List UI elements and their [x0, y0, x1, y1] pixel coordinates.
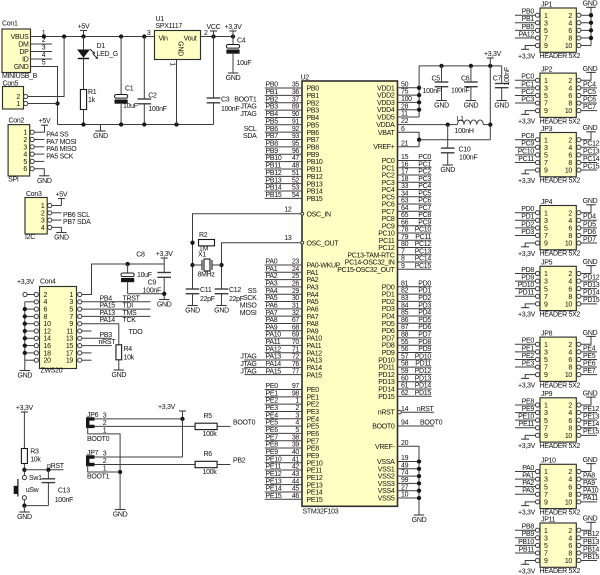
- wire JP10 pin9 to +3.3V: [525, 502, 535, 506]
- wire JP1 pin9 to +3.3V: [525, 46, 535, 50]
- svg-text:PB14: PB14: [266, 185, 282, 192]
- svg-text:TCK: TCK: [123, 317, 137, 324]
- svg-text:PC8: PC8: [382, 216, 395, 223]
- svg-text:BOOT1: BOOT1: [87, 474, 110, 481]
- svg-text:10: 10: [565, 241, 573, 248]
- svg-text:PC4: PC4: [418, 183, 431, 190]
- svg-text:PA11: PA11: [307, 343, 322, 350]
- svg-text:Con2: Con2: [9, 118, 25, 125]
- svg-text:TDO: TDO: [129, 329, 144, 336]
- svg-text:5: 5: [544, 543, 548, 550]
- svg-text:13: 13: [66, 336, 74, 343]
- svg-text:PE6: PE6: [583, 360, 596, 367]
- U2 pin VDD5 (11): [377, 111, 419, 122]
- svg-text:29: 29: [292, 288, 300, 295]
- svg-text:PC14-OSC32_IN: PC14-OSC32_IN: [345, 260, 395, 267]
- svg-text:89: 89: [292, 104, 300, 111]
- header JP8 HEADER 5X2: [535, 331, 581, 390]
- power +3.3V JP9: [518, 439, 536, 450]
- svg-text:HEADER 5X2: HEADER 5X2: [540, 178, 581, 185]
- svg-text:PD6: PD6: [382, 328, 395, 335]
- wire Con2 pin6 to ground: [34, 169, 44, 176]
- wire JP10 pin5 net PA2: [515, 480, 535, 487]
- svg-text:19: 19: [66, 358, 74, 365]
- capacitor C7 100nF: [493, 66, 511, 101]
- svg-text:PD9: PD9: [418, 346, 431, 353]
- svg-text:4: 4: [42, 52, 46, 59]
- svg-text:PB9: PB9: [522, 531, 535, 538]
- svg-text:DM: DM: [18, 41, 29, 48]
- svg-text:PB6 SCL: PB6 SCL: [63, 212, 90, 219]
- svg-text:PC13: PC13: [583, 148, 600, 155]
- svg-text:PC10: PC10: [415, 227, 432, 234]
- wire JP3 pin8 net PC14: [581, 156, 600, 163]
- svg-text:PC5: PC5: [382, 194, 395, 201]
- svg-text:99: 99: [401, 477, 409, 484]
- svg-text:+3,3V: +3,3V: [518, 251, 536, 258]
- svg-text:PE7: PE7: [583, 368, 596, 375]
- U2 pin VBAT (6): [378, 126, 419, 147]
- svg-text:20: 20: [401, 440, 409, 447]
- wire Con3 pin3 / net PB7 SDA: [52, 219, 91, 226]
- svg-text:PC4: PC4: [382, 187, 395, 194]
- svg-text:PC14: PC14: [415, 256, 432, 263]
- svg-text:PE9: PE9: [307, 453, 320, 460]
- wire JP2 pin4 net PC4: [581, 81, 597, 88]
- wire JP11 pin3 net PB9: [515, 531, 535, 538]
- wire JP3 pin7 net PC11: [515, 156, 535, 163]
- svg-text:C1: C1: [125, 86, 134, 93]
- wire +3.3V down to JP7 pin3: [182, 419, 184, 457]
- U2 pin PC9 (66): [382, 219, 432, 230]
- svg-text:6: 6: [568, 152, 572, 159]
- svg-text:nRST: nRST: [99, 339, 117, 346]
- wire R5 to net BOOT0: [217, 419, 256, 426]
- wire JP9 pin10 net PE15: [581, 429, 599, 436]
- svg-text:3: 3: [42, 45, 46, 52]
- svg-text:PC2: PC2: [521, 89, 534, 96]
- wire JP2 pin10 net PC7: [581, 104, 597, 111]
- wire JP4 pin5 net PD2: [515, 221, 535, 228]
- svg-text:3: 3: [544, 349, 548, 356]
- svg-text:PC8: PC8: [418, 212, 431, 219]
- svg-text:TRST: TRST: [123, 295, 141, 302]
- connector Con4 ZWS20 JTAG: [34, 279, 82, 375]
- svg-text:JP2: JP2: [541, 67, 553, 74]
- wire JP4 pin9 to +3.3V: [525, 243, 535, 247]
- capacitor C6 100nF: [451, 66, 478, 101]
- svg-text:R3: R3: [30, 449, 39, 456]
- svg-text:PE12: PE12: [583, 406, 599, 413]
- svg-text:+3,3V: +3,3V: [518, 53, 536, 60]
- U2 pin PE4 (3): [265, 412, 320, 423]
- svg-text:38: 38: [292, 434, 300, 441]
- svg-text:6: 6: [568, 286, 572, 293]
- wire Con2 pin5 stub: [34, 160, 44, 162]
- svg-text:92: 92: [292, 126, 300, 133]
- svg-text:PB6: PB6: [307, 130, 320, 137]
- ground symbol JP2: [583, 66, 598, 73]
- svg-text:87: 87: [401, 324, 409, 331]
- svg-text:PC0: PC0: [418, 154, 431, 161]
- power +5V Con3: [56, 192, 68, 206]
- svg-text:PB10: PB10: [518, 539, 534, 546]
- svg-text:36: 36: [292, 89, 300, 96]
- svg-text:2: 2: [16, 94, 20, 101]
- svg-text:PE3: PE3: [522, 360, 535, 367]
- svg-text:PD10: PD10: [415, 353, 432, 360]
- svg-text:PD0: PD0: [521, 206, 534, 213]
- svg-text:32: 32: [292, 310, 300, 317]
- header JP5 HEADER 5X2: [535, 260, 581, 319]
- svg-text:10: 10: [565, 433, 573, 440]
- svg-text:PB5: PB5: [307, 122, 320, 129]
- svg-text:PA1: PA1: [307, 270, 319, 277]
- U2 pin PD6 (87): [382, 324, 432, 335]
- wire Con2 pin4 / net PA5 SCK: [34, 154, 73, 161]
- U2 pin PE15 (46): [265, 493, 323, 504]
- capacitor C1 10uF: [115, 37, 138, 125]
- svg-text:100nH: 100nH: [455, 128, 474, 135]
- junction Con4 GND bus: [23, 351, 27, 355]
- svg-text:PB12: PB12: [307, 174, 323, 181]
- svg-text:1: 1: [41, 203, 45, 210]
- junction rail/+3.3V feed: [488, 64, 492, 68]
- ground symbol JP1: [583, 1, 598, 8]
- U2 pin VSS1 (49): [378, 462, 419, 473]
- wire JP8 pin5 net PE2: [515, 353, 535, 360]
- wire JP3 pin9 to +3.3V: [525, 170, 535, 174]
- svg-text:3: 3: [544, 145, 548, 152]
- U2 pin PC8 (65): [382, 212, 432, 223]
- svg-text:100nF: 100nF: [459, 155, 477, 162]
- svg-text:10: 10: [565, 301, 573, 308]
- svg-text:15: 15: [401, 154, 409, 161]
- wire JP2 pin8 net PC6: [581, 96, 597, 103]
- svg-text:26: 26: [292, 281, 300, 288]
- svg-text:JTAG: JTAG: [240, 368, 256, 375]
- wire Con4 pin11 stub: [82, 330, 92, 332]
- U2 pin VDD4 (28): [377, 103, 419, 114]
- svg-text:100nF: 100nF: [55, 497, 73, 504]
- wire nRST net label: [24, 463, 64, 470]
- svg-text:58: 58: [401, 361, 409, 368]
- wire JP9 pin3 net PE9: [515, 406, 535, 413]
- wire JP11 pin2 to GND: [581, 522, 591, 530]
- svg-text:PE0: PE0: [307, 387, 320, 394]
- junction rail/U1 GND: [174, 122, 178, 126]
- U2 pin VDD2 (75): [377, 89, 419, 100]
- wire Con4 pin17 stub: [82, 352, 92, 354]
- svg-text:C10: C10: [459, 147, 471, 154]
- svg-text:C6: C6: [461, 76, 470, 83]
- wire JP5 pin4 net PD12: [581, 274, 600, 281]
- svg-text:PA9: PA9: [307, 328, 319, 335]
- svg-text:R6: R6: [204, 451, 213, 458]
- svg-text:2: 2: [568, 528, 572, 535]
- svg-text:8: 8: [568, 365, 572, 372]
- wire JP11 pin6 net PB13: [581, 539, 599, 546]
- junction Con4 GND bus: [23, 322, 27, 326]
- svg-text:GND: GND: [583, 391, 598, 398]
- power +3.3V boot jumpers: [158, 404, 186, 419]
- svg-text:41: 41: [292, 456, 300, 463]
- U2 pin PD5 (86): [382, 317, 432, 328]
- U2 pin PC4 (33): [382, 183, 432, 194]
- svg-text:PA0-WKUP: PA0-WKUP: [307, 263, 341, 270]
- capacitor C2 100nF: [138, 37, 167, 125]
- svg-text:VCC: VCC: [207, 24, 221, 31]
- U2 pin PE7 (38): [265, 434, 320, 445]
- svg-text:I2C: I2C: [25, 234, 35, 241]
- svg-text:7: 7: [544, 365, 548, 372]
- wire JP8 pin4 net PE4: [581, 345, 597, 352]
- ground symbol JP5: [583, 259, 598, 266]
- svg-text:GND: GND: [583, 198, 598, 205]
- svg-text:VBAT: VBAT: [378, 130, 396, 137]
- svg-text:GND: GND: [93, 133, 108, 140]
- svg-text:GND: GND: [113, 512, 128, 519]
- svg-text:JP11: JP11: [541, 516, 556, 523]
- U2 pin PC0 (15): [382, 154, 432, 165]
- svg-text:6: 6: [568, 225, 572, 232]
- svg-text:PB12: PB12: [266, 170, 282, 177]
- junction Con5 pin1 on GND drop: [55, 101, 59, 105]
- svg-text:PE11: PE11: [519, 421, 535, 428]
- svg-text:PD1: PD1: [418, 288, 431, 295]
- wire JP6 pin3 to +3.3V: [94, 418, 183, 420]
- svg-text:PA14: PA14: [100, 317, 116, 324]
- resistor R6 100k: [195, 451, 217, 476]
- svg-text:PC2: PC2: [382, 173, 395, 180]
- svg-text:9: 9: [69, 321, 73, 328]
- svg-text:7: 7: [544, 551, 548, 558]
- svg-text:PD11: PD11: [379, 365, 395, 372]
- wire JP4 pin6 net PD5: [581, 221, 597, 228]
- U2 pin PA8 (67): [265, 317, 319, 328]
- svg-text:PB13: PB13: [266, 177, 282, 184]
- wire Con3 pin1 to +5V: [52, 205, 62, 207]
- svg-text:65: 65: [401, 212, 409, 219]
- svg-text:PE10: PE10: [266, 456, 282, 463]
- svg-text:BOOT0: BOOT0: [372, 424, 395, 431]
- U2 pin BOOT0 (94): [372, 420, 442, 431]
- svg-text:24: 24: [292, 266, 300, 273]
- svg-text:PE10: PE10: [307, 460, 323, 467]
- wire R6 to net PB2: [217, 458, 246, 465]
- svg-text:PA7: PA7: [266, 310, 278, 317]
- svg-text:R1: R1: [88, 89, 97, 96]
- inductor L1 100nH: [455, 116, 491, 135]
- svg-text:BOOT0: BOOT0: [87, 436, 110, 443]
- svg-text:PA4 SS: PA4 SS: [46, 132, 69, 139]
- svg-text:GND: GND: [583, 516, 598, 523]
- U2 pin PB5 (91): [265, 118, 320, 129]
- svg-text:10: 10: [565, 168, 573, 175]
- wire JP5 pin8 net PD14: [581, 290, 600, 297]
- svg-text:47: 47: [292, 155, 300, 162]
- svg-text:18: 18: [401, 176, 409, 183]
- junction boot ground bus: [118, 470, 122, 474]
- svg-text:PB3: PB3: [307, 108, 320, 115]
- ground rail bottom of power section: [58, 124, 214, 126]
- wire JP4 pin8 net PD6: [581, 229, 597, 236]
- svg-text:9: 9: [544, 372, 548, 379]
- wire JP9 pin2 to GND: [581, 397, 591, 405]
- ground symbol reset: [17, 506, 32, 521]
- svg-text:4: 4: [568, 279, 572, 286]
- wire JP1 pin2 to GND: [581, 7, 591, 15]
- ground symbol C7: [494, 101, 509, 110]
- wire JP8 pin3 net PE1: [515, 345, 535, 352]
- svg-text:PA12: PA12: [519, 31, 535, 38]
- svg-text:8: 8: [568, 101, 572, 108]
- junction Con4 GND bus: [23, 336, 27, 340]
- svg-text:PB7: PB7: [266, 133, 279, 140]
- power +3.3V JP2: [518, 114, 536, 125]
- power +3.3V JP8: [518, 378, 536, 389]
- svg-text:8: 8: [568, 425, 572, 432]
- U2 pin PE10 (41): [265, 456, 323, 467]
- junction C8 top: [125, 262, 129, 266]
- svg-text:PE1: PE1: [307, 394, 320, 401]
- svg-text:52: 52: [292, 177, 300, 184]
- svg-text:62: 62: [401, 390, 409, 397]
- wire Con4 pin9 TCK / net PA14: [82, 317, 136, 324]
- svg-text:6: 6: [401, 126, 405, 133]
- connector Con1 MINIUSB_B: [2, 20, 38, 80]
- svg-text:PE4: PE4: [307, 416, 320, 423]
- U2 pin PA5 (30): [243, 295, 319, 306]
- svg-text:66: 66: [401, 219, 409, 226]
- svg-text:4: 4: [568, 85, 572, 92]
- svg-text:HEADER 5X2: HEADER 5X2: [540, 53, 581, 60]
- junction C8/C9 ground join: [162, 292, 166, 296]
- ground symbol JP9: [583, 391, 598, 398]
- wire VBAT/VREF+ node to +3.3V column: [419, 139, 490, 141]
- power +3.3V JP1: [518, 49, 536, 60]
- junction Con4 GND bus: [23, 343, 27, 347]
- svg-text:PC15: PC15: [415, 263, 432, 270]
- power +5V Con2: [39, 118, 51, 132]
- svg-text:VDD1: VDD1: [377, 85, 395, 92]
- svg-text:1: 1: [544, 469, 548, 476]
- svg-text:PD7: PD7: [418, 332, 431, 339]
- svg-text:70: 70: [292, 339, 300, 346]
- svg-text:19: 19: [401, 455, 409, 462]
- wire JP11 pin9 to +3.3V: [525, 561, 535, 565]
- svg-text:PB1: PB1: [307, 93, 320, 100]
- svg-text:PB14: PB14: [583, 546, 599, 553]
- power +3.3V JP5: [518, 308, 536, 319]
- svg-text:8: 8: [401, 256, 405, 263]
- U2 pin PA10 (69): [265, 332, 323, 343]
- svg-text:PD4: PD4: [583, 214, 596, 221]
- svg-text:PA4: PA4: [307, 292, 319, 299]
- svg-text:91: 91: [292, 118, 300, 125]
- svg-text:10: 10: [565, 108, 573, 115]
- wire JP6 pin1 to ground bus: [94, 434, 120, 510]
- junction VDD bus: [417, 108, 421, 112]
- svg-text:PA12: PA12: [266, 346, 282, 353]
- svg-text:PE3: PE3: [266, 405, 279, 412]
- svg-text:GND: GND: [54, 235, 69, 242]
- svg-text:PD12: PD12: [415, 368, 432, 375]
- wire JP3 pin6 net PC13: [581, 148, 600, 155]
- svg-text:PC10: PC10: [518, 148, 535, 155]
- jumper JP7 BOOT1: [87, 450, 110, 481]
- svg-text:68: 68: [292, 324, 300, 331]
- capacitor C5 100nF: [423, 66, 449, 101]
- U2 pin PD8 (55): [382, 339, 432, 350]
- U2 pin PB13 (52): [265, 177, 323, 188]
- svg-text:GND: GND: [214, 308, 229, 315]
- svg-text:PE13: PE13: [266, 478, 282, 485]
- svg-text:STM32F103: STM32F103: [303, 508, 339, 515]
- svg-text:PE12: PE12: [307, 475, 323, 482]
- svg-text:+3,3V: +3,3V: [518, 383, 536, 390]
- svg-text:PE9: PE9: [522, 406, 535, 413]
- svg-text:7: 7: [544, 160, 548, 167]
- svg-text:PE4: PE4: [266, 412, 279, 419]
- U2 pin PB1 (36): [265, 89, 320, 100]
- svg-text:PD11: PD11: [518, 290, 534, 297]
- svg-text:64: 64: [401, 205, 409, 212]
- svg-text:PA8: PA8: [266, 317, 278, 324]
- capacitor C8 10uF: [121, 252, 152, 294]
- svg-text:PB2: PB2: [266, 96, 279, 103]
- svg-text:4: 4: [568, 535, 572, 542]
- svg-text:97: 97: [292, 383, 300, 390]
- U2 pin PC15 (9): [337, 263, 431, 274]
- svg-text:PA2: PA2: [266, 273, 278, 280]
- svg-text:6: 6: [568, 357, 572, 364]
- svg-text:8: 8: [568, 294, 572, 301]
- U2 pin PC14 (8): [345, 256, 432, 267]
- svg-text:33: 33: [401, 183, 409, 190]
- wire C8 bottom to C9 column: [128, 293, 165, 295]
- power +3.3V above C9: [156, 251, 174, 264]
- ground symbol JP11: [583, 516, 598, 523]
- svg-text:PD5: PD5: [418, 317, 431, 324]
- svg-text:HEADER 5X2: HEADER 5X2: [540, 382, 581, 389]
- svg-text:+3,3V: +3,3V: [17, 279, 35, 286]
- svg-text:PC11: PC11: [379, 238, 395, 245]
- svg-text:PA8: PA8: [583, 472, 595, 479]
- svg-text:VSS1: VSS1: [378, 466, 395, 473]
- svg-text:8MHz: 8MHz: [198, 272, 216, 279]
- U2 pin PB11 (48): [265, 163, 323, 174]
- svg-text:2: 2: [568, 137, 572, 144]
- wire JP8 pin1 net PE0: [515, 338, 535, 345]
- svg-text:7: 7: [544, 425, 548, 432]
- svg-text:8: 8: [568, 160, 572, 167]
- svg-text:77: 77: [292, 368, 300, 375]
- wire Con4 pin5 TDI / net PA15: [82, 303, 151, 310]
- svg-text:PB8: PB8: [522, 524, 535, 531]
- U2 pin PA4 (29): [248, 288, 319, 299]
- svg-text:D1: D1: [97, 43, 106, 50]
- svg-text:57: 57: [401, 353, 409, 360]
- svg-text:R5: R5: [204, 413, 213, 420]
- svg-text:5: 5: [544, 152, 548, 159]
- wire JP11 pin4 net PB12: [581, 531, 599, 538]
- U2 pin PB0 (35): [265, 82, 320, 93]
- svg-text:3: 3: [23, 144, 27, 151]
- ground symbol C10: [440, 165, 455, 174]
- svg-text:PB8: PB8: [266, 140, 279, 147]
- svg-text:Con4: Con4: [40, 279, 56, 286]
